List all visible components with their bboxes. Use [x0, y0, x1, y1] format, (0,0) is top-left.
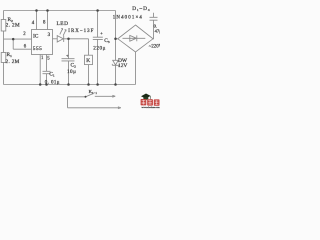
node dot bridge left vertex	[114, 38, 117, 41]
node dot pin2-pin6	[12, 38, 15, 41]
wire pin 1 to ground rail	[39, 55, 41, 85]
node dot C2 ground	[67, 83, 70, 86]
svg-text:C1: C1	[49, 71, 55, 77]
svg-text:D1~D4: D1~D4	[132, 6, 150, 12]
wire pin 2	[4, 38, 32, 40]
wire pin2-pin6 link	[12, 39, 14, 49]
wire node A to relay branch	[69, 39, 89, 55]
resistor R1	[1, 53, 6, 63]
svg-text:2. 2M: 2. 2M	[6, 59, 20, 65]
wire pin 3	[53, 38, 58, 40]
svg-text:220μ: 220μ	[93, 46, 106, 52]
svg-text:10μ: 10μ	[67, 69, 76, 75]
capacitor C1	[43, 71, 51, 84]
svg-text:8: 8	[43, 21, 46, 26]
capacitor C4 series dropper	[150, 13, 158, 39]
svg-text:K: K	[86, 58, 90, 64]
bridge rectifier D1-D4 diamond	[118, 25, 153, 52]
wire left rail upper segment	[3, 11, 5, 20]
bridge inner diode	[123, 35, 146, 41]
zener diode DW	[112, 60, 118, 84]
LED diode symbol	[57, 36, 68, 42]
svg-text:R1: R1	[7, 52, 13, 58]
LED arrowheads	[61, 28, 66, 31]
node dot C3 ground	[96, 83, 99, 86]
wire left rail middle segment	[3, 31, 5, 53]
svg-text:12V: 12V	[118, 63, 127, 69]
node dot pin1 ground	[39, 83, 42, 86]
wire top rail	[4, 10, 116, 12]
svg-text:1N4001×4: 1N4001×4	[113, 16, 143, 21]
svg-text:0. 01μ: 0. 01μ	[45, 80, 60, 85]
svg-text:1: 1	[41, 56, 44, 61]
svg-text:47μ: 47μ	[155, 28, 160, 33]
svg-text:3: 3	[48, 33, 51, 38]
svg-text:4: 4	[32, 21, 35, 26]
node dot relay K ground	[87, 83, 90, 86]
node dot pin4 rail	[35, 9, 38, 12]
svg-text:IRX−13F: IRX−13F	[68, 29, 94, 34]
node dot zener ground	[114, 83, 117, 86]
wire left rail lower segment	[3, 63, 5, 85]
wire pin 5	[46, 55, 48, 72]
svg-text:K1−1: K1−1	[89, 89, 98, 95]
svg-text:C3: C3	[104, 38, 110, 44]
capacitor C3 electrolytic wire	[93, 11, 103, 85]
wire pin 8	[47, 11, 49, 30]
svg-text:LED: LED	[57, 21, 69, 27]
svg-text:5: 5	[47, 56, 50, 61]
svg-text:IC: IC	[33, 34, 39, 40]
wire relay K to ground rail	[88, 65, 90, 85]
svg-text:2: 2	[23, 32, 26, 37]
watermark red seal characters	[141, 99, 160, 106]
svg-text:2. 2M: 2. 2M	[6, 23, 20, 29]
wire bridge bottom vertex to ground rail	[135, 52, 137, 85]
IC U1 555 box	[32, 30, 53, 55]
node dot C1 ground	[45, 83, 48, 86]
node dot LED output node A	[67, 38, 70, 41]
node dot C3 top rail	[96, 9, 99, 12]
resistor R2	[1, 20, 6, 32]
svg-text:C2: C2	[71, 63, 77, 69]
relay coil K	[85, 55, 93, 64]
wire bottom rail	[4, 84, 136, 86]
wire stub bridge left vertex	[116, 38, 118, 40]
svg-text:~220V: ~220V	[149, 45, 160, 50]
node dot pin8 rail	[46, 9, 49, 12]
svg-text:555: 555	[33, 46, 42, 52]
svg-text:www.elecfans.com: www.elecfans.com	[142, 106, 160, 109]
watermark logo graduation cap	[141, 94, 151, 100]
relay contact K1-1	[68, 93, 120, 107]
LED emission arrows	[60, 28, 66, 35]
wire pin 4	[36, 11, 38, 30]
watermark character strokes	[142, 100, 146, 105]
node dot contact fixed point	[85, 96, 87, 98]
svg-text:+: +	[100, 31, 103, 36]
wire right vertical from top rail to zener	[115, 11, 117, 61]
wire pin 6	[13, 48, 31, 50]
capacitor C2 electrolytic	[62, 39, 75, 85]
contact output arrowheads	[112, 95, 121, 109]
